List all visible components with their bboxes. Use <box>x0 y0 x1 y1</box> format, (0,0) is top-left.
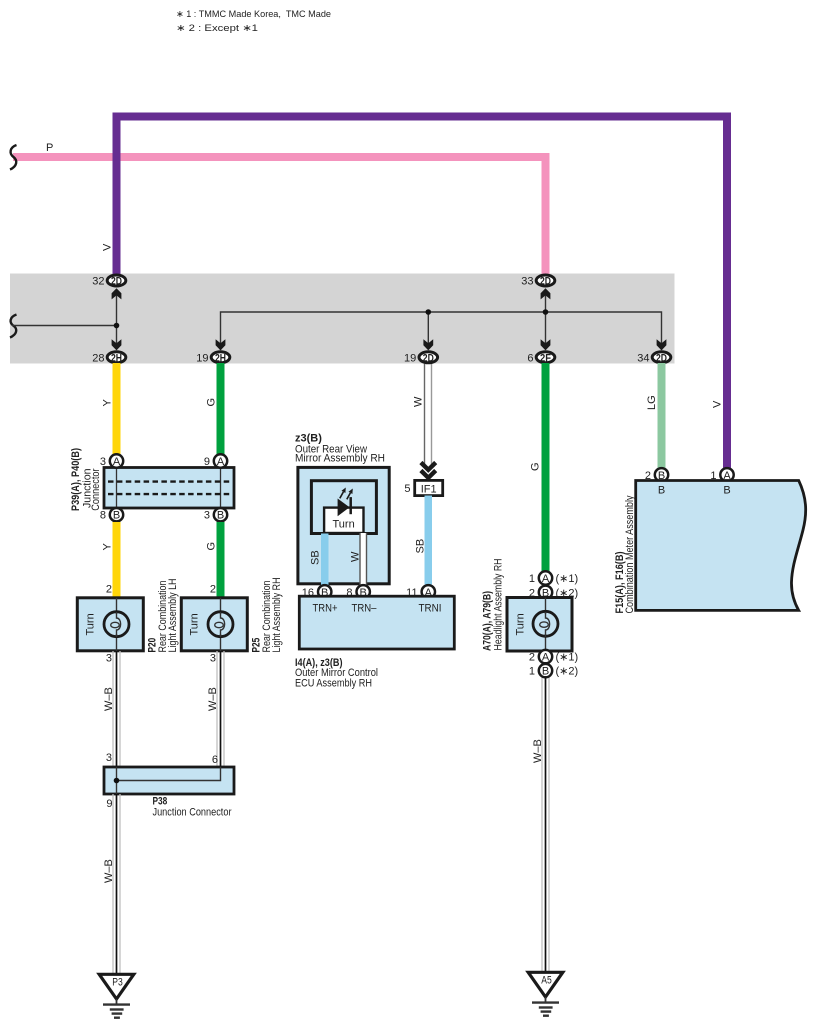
svg-text:B: B <box>542 666 549 678</box>
wire W-B P25 to P38 <box>217 651 224 767</box>
wire Y upper <box>113 363 121 456</box>
mirror inner box <box>311 481 376 534</box>
ground P3 <box>99 974 134 1017</box>
svg-text:2F: 2F <box>540 352 551 364</box>
svg-text:2: 2 <box>529 652 535 664</box>
wire G lower <box>217 522 225 598</box>
junction connector P38 box <box>104 767 234 794</box>
wire SB from IF1 to ECU <box>425 496 433 585</box>
svg-text:3: 3 <box>204 510 210 522</box>
pin 3 circle A JC left <box>100 454 123 468</box>
svg-text:2: 2 <box>210 584 216 596</box>
svg-text:2D: 2D <box>423 352 434 364</box>
svg-text:3: 3 <box>106 653 112 665</box>
component A70/A79 headlight box <box>507 598 572 652</box>
svg-text:TRN–: TRN– <box>352 603 378 615</box>
svg-text:Turn: Turn <box>85 613 97 635</box>
svg-text:6: 6 <box>212 754 218 766</box>
wire band vertical col1 <box>116 295 118 344</box>
svg-text:B: B <box>217 510 224 522</box>
component mirror assembly box <box>298 467 389 583</box>
svg-text:2D: 2D <box>656 352 667 364</box>
wire thin band line1 <box>12 325 117 327</box>
svg-text:2: 2 <box>106 584 112 596</box>
svg-text:9: 9 <box>204 456 210 468</box>
junction dot col1 <box>114 323 120 329</box>
svg-text:Turn: Turn <box>189 613 201 635</box>
squiggle break mark top <box>10 145 17 170</box>
chevron double arrow <box>421 463 436 478</box>
wire band vertical col3 <box>427 312 429 344</box>
arrow down col2 <box>216 339 226 350</box>
svg-text:1: 1 <box>529 573 535 585</box>
connector 34 2D <box>637 352 671 365</box>
svg-text:B: B <box>723 485 730 497</box>
svg-text:19: 19 <box>404 352 416 364</box>
svg-text:Y: Y <box>101 399 113 407</box>
pin 2 circle B headlight top <box>529 586 578 600</box>
wire V purple horizontal top <box>117 117 728 469</box>
pin 2 circle B meter <box>645 468 668 482</box>
svg-text:19: 19 <box>196 352 208 364</box>
wire W-B P38 to ground <box>113 794 120 974</box>
svg-text:1: 1 <box>529 666 535 678</box>
svg-text:ECU Assembly RH: ECU Assembly RH <box>295 677 372 689</box>
svg-text:Y: Y <box>101 543 113 551</box>
wire band vertical col4 <box>545 295 547 344</box>
pin 1 circle A meter <box>710 468 733 482</box>
svg-text:Light Assembly LH: Light Assembly LH <box>167 578 179 652</box>
svg-text:SB: SB <box>310 550 322 565</box>
pin 3 circle B JC right <box>204 508 227 522</box>
svg-text:A: A <box>542 652 550 664</box>
svg-text:9: 9 <box>106 798 112 810</box>
svg-text:Combination Meter Assembly: Combination Meter Assembly <box>624 495 636 613</box>
connector 6 2F <box>527 352 554 365</box>
svg-text:Turn: Turn <box>515 613 527 635</box>
svg-text:2D: 2D <box>540 276 551 288</box>
pin 8 circle B <box>346 585 370 599</box>
svg-text:TRN+: TRN+ <box>313 603 338 615</box>
svg-text:W: W <box>350 551 362 562</box>
svg-text:Light Assembly RH: Light Assembly RH <box>271 577 283 652</box>
svg-text:G: G <box>205 542 217 551</box>
svg-text:W–B: W–B <box>103 687 115 711</box>
squiggle break mark band <box>10 315 17 338</box>
wire SB in mirror <box>321 534 329 586</box>
turn box in mirror <box>324 508 363 533</box>
svg-text:W–B: W–B <box>532 739 544 763</box>
svg-text:34: 34 <box>637 352 649 364</box>
svg-text:A70(A), A79(B): A70(A), A79(B) <box>481 591 493 651</box>
svg-text:B: B <box>113 510 120 522</box>
svg-text:∗ 1 : TMMC Made Korea, TMC Ma: ∗ 1 : TMMC Made Korea, TMC Made <box>176 9 331 19</box>
pin 2 circle A headlight bottom <box>529 650 578 678</box>
pin 16 circle B <box>302 585 332 599</box>
arrow down col5 <box>657 339 667 350</box>
svg-text:32: 32 <box>92 276 104 288</box>
svg-text:28: 28 <box>92 352 104 364</box>
wire P pink horizontal <box>13 157 546 275</box>
pin 11 circle A <box>406 585 435 599</box>
component I4/z3 ECU box <box>299 596 454 649</box>
svg-text:V: V <box>102 243 114 251</box>
arrow down col1 <box>112 339 122 350</box>
wire LG <box>658 363 666 468</box>
svg-text:∗ 2 : Except ∗1: ∗ 2 : Except ∗1 <box>176 23 258 33</box>
wire W from band to IF1 <box>425 364 432 466</box>
component P20 rear combination light LH <box>77 598 143 651</box>
svg-text:Connector: Connector <box>90 468 102 510</box>
svg-text:P3: P3 <box>112 977 123 989</box>
svg-text:Junction Connector: Junction Connector <box>153 807 232 819</box>
svg-text:P39(A), P40(B): P39(A), P40(B) <box>70 448 82 511</box>
svg-text:B: B <box>658 485 665 497</box>
component F15/F16 combination meter box <box>636 481 806 611</box>
connector IF1 <box>404 480 442 495</box>
connector 33 2D <box>521 275 555 288</box>
LED D1 <box>338 488 353 517</box>
svg-text:Turn: Turn <box>332 519 354 531</box>
svg-text:3: 3 <box>210 653 216 665</box>
wire G headlight <box>542 363 550 571</box>
svg-text:W–B: W–B <box>103 859 115 883</box>
connector 19 2H <box>196 352 230 365</box>
label I4(A), z3(B) <box>295 657 378 689</box>
connector 32 2D <box>92 275 126 288</box>
svg-text:W–B: W–B <box>207 687 219 711</box>
wire W in mirror <box>360 533 367 585</box>
svg-text:LG: LG <box>646 395 658 410</box>
wire thin band line2 <box>221 312 662 350</box>
svg-text:2H: 2H <box>111 352 122 364</box>
wire W-B headlight to ground <box>542 678 549 972</box>
component P25 rear combination light RH <box>181 598 247 651</box>
svg-text:(∗1): (∗1) <box>556 652 579 664</box>
pin 9 circle A JC right <box>204 454 227 468</box>
svg-text:G: G <box>205 398 217 407</box>
connector 28 2H <box>92 352 126 365</box>
component z3(B) outer rear view mirror labels <box>295 433 385 465</box>
connector 19 2D <box>404 352 438 365</box>
svg-text:TRNI: TRNI <box>419 603 442 615</box>
svg-text:A: A <box>542 573 550 585</box>
svg-text:(∗1): (∗1) <box>556 573 579 585</box>
svg-text:A: A <box>113 456 121 468</box>
wire W-B P20 to P38 <box>113 651 120 767</box>
wire Y lower <box>113 522 121 598</box>
svg-text:33: 33 <box>521 276 533 288</box>
junction dot col3 <box>426 309 432 315</box>
pin 8 circle B JC left <box>100 508 123 522</box>
svg-text:5: 5 <box>404 483 410 495</box>
arrow up col4 <box>541 288 551 299</box>
svg-text:SB: SB <box>415 539 427 554</box>
svg-text:P: P <box>46 142 53 154</box>
svg-text:(∗2): (∗2) <box>556 666 579 678</box>
junction dot col4 <box>543 309 549 315</box>
arrow down col3 <box>423 339 433 350</box>
pin 1 circle A headlight top <box>529 571 578 598</box>
arrow up col1 <box>112 288 122 299</box>
ground A5 <box>528 972 563 1015</box>
svg-text:3: 3 <box>106 752 112 764</box>
junction connector P39/P40 box <box>104 468 234 509</box>
svg-text:2D: 2D <box>111 276 122 288</box>
wire G upper <box>217 363 225 456</box>
svg-text:3: 3 <box>100 456 106 468</box>
note text <box>176 9 331 33</box>
svg-text:2H: 2H <box>215 352 226 364</box>
wire V over P crossing <box>113 153 121 161</box>
pin 1 circle B headlight bottom <box>529 664 578 678</box>
svg-text:V: V <box>711 400 723 408</box>
svg-text:6: 6 <box>527 352 533 364</box>
svg-text:G: G <box>529 462 541 471</box>
svg-text:IF1: IF1 <box>421 484 437 496</box>
svg-text:Mirror Assembly RH: Mirror Assembly RH <box>295 453 385 465</box>
svg-text:A: A <box>217 456 225 468</box>
gray harness band <box>10 274 675 364</box>
svg-text:Headlight Assembly RH: Headlight Assembly RH <box>493 558 505 650</box>
svg-text:A5: A5 <box>541 975 552 987</box>
arrow down col4 <box>541 339 551 350</box>
svg-text:W: W <box>412 396 424 407</box>
